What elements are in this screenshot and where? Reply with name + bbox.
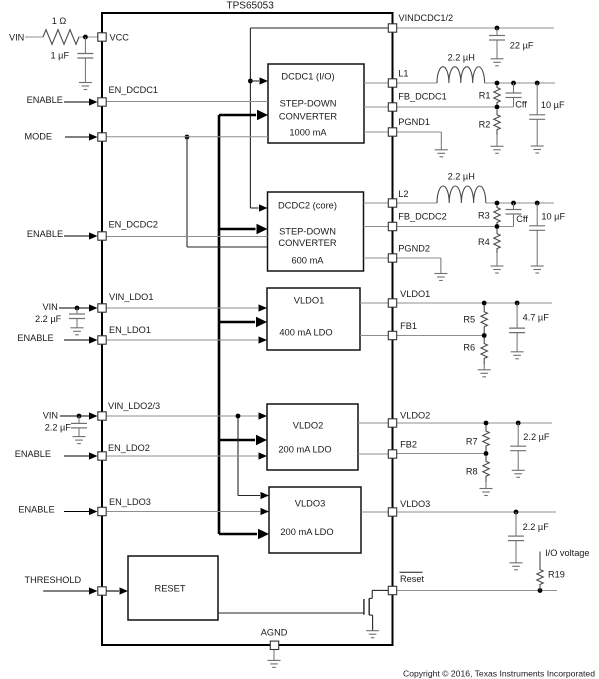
svg-text:VIN: VIN (43, 302, 58, 312)
svg-text:ENABLE: ENABLE (17, 333, 53, 343)
svg-text:1 µF: 1 µF (51, 51, 70, 61)
svg-text:R1: R1 (479, 91, 491, 101)
svg-text:Cff: Cff (516, 214, 528, 224)
svg-text:THRESHOLD: THRESHOLD (25, 575, 82, 585)
svg-text:ENABLE: ENABLE (27, 95, 63, 105)
svg-text:VLDO2: VLDO2 (293, 420, 324, 430)
svg-text:EN_DCDC2: EN_DCDC2 (109, 220, 159, 230)
svg-text:STEP-DOWN: STEP-DOWN (280, 98, 337, 108)
svg-text:10 µF: 10 µF (541, 100, 565, 110)
svg-text:R3: R3 (478, 211, 490, 221)
svg-text:2.2 µF: 2.2 µF (523, 522, 550, 532)
svg-text:Copyright © 2016, Texas Instru: Copyright © 2016, Texas Instruments Inco… (403, 669, 595, 679)
svg-text:EN_DCDC1: EN_DCDC1 (109, 85, 159, 95)
svg-text:FB_DCDC1: FB_DCDC1 (398, 92, 447, 102)
svg-text:CONVERTER: CONVERTER (278, 238, 336, 248)
svg-text:VCC: VCC (110, 32, 130, 42)
svg-text:DCDC2 (core): DCDC2 (core) (278, 200, 337, 210)
svg-text:600 mA: 600 mA (291, 255, 324, 265)
svg-text:2.2 µF: 2.2 µF (523, 432, 550, 442)
svg-text:R5: R5 (463, 315, 475, 325)
svg-text:R7: R7 (466, 437, 478, 447)
svg-text:Cff: Cff (515, 100, 527, 110)
svg-text:VLDO1: VLDO1 (400, 289, 430, 299)
svg-text:VLDO1: VLDO1 (294, 295, 325, 305)
svg-text:STEP-DOWN: STEP-DOWN (279, 226, 336, 236)
svg-text:EN_LDO2: EN_LDO2 (108, 443, 150, 453)
svg-text:CONVERTER: CONVERTER (279, 111, 337, 121)
svg-text:2.2 µF: 2.2 µF (45, 422, 72, 432)
svg-text:EN_LDO1: EN_LDO1 (109, 325, 151, 335)
svg-text:PGND1: PGND1 (398, 117, 430, 127)
svg-text:VLDO3: VLDO3 (295, 498, 326, 508)
svg-text:400 mA LDO: 400 mA LDO (279, 327, 332, 337)
svg-text:TPS65053: TPS65053 (227, 1, 275, 12)
svg-text:1000 mA: 1000 mA (289, 127, 327, 137)
svg-text:R2: R2 (479, 120, 491, 130)
svg-text:R6: R6 (463, 342, 475, 352)
svg-text:I/O voltage: I/O voltage (545, 548, 589, 558)
svg-text:1 Ω: 1 Ω (52, 16, 67, 26)
svg-text:ENABLE: ENABLE (18, 504, 54, 514)
svg-text:10 µF: 10 µF (541, 211, 565, 221)
svg-text:VLDO3: VLDO3 (400, 499, 430, 509)
svg-text:DCDC1 (I/O): DCDC1 (I/O) (281, 71, 334, 81)
svg-text:VINDCDC1/2: VINDCDC1/2 (399, 13, 454, 23)
svg-text:R4: R4 (478, 237, 490, 247)
svg-text:ENABLE: ENABLE (27, 229, 63, 239)
svg-text:RESET: RESET (155, 583, 186, 593)
svg-text:VLDO2: VLDO2 (400, 411, 430, 421)
svg-text:PGND2: PGND2 (398, 244, 430, 254)
svg-text:EN_LDO3: EN_LDO3 (109, 497, 151, 507)
svg-text:FB_DCDC2: FB_DCDC2 (398, 212, 447, 222)
svg-text:VIN_LDO1: VIN_LDO1 (109, 292, 153, 302)
svg-text:L1: L1 (398, 69, 408, 79)
svg-text:200 mA LDO: 200 mA LDO (278, 444, 331, 454)
svg-text:R8: R8 (466, 466, 478, 476)
svg-text:FB1: FB1 (400, 321, 417, 331)
svg-text:Reset: Reset (400, 574, 424, 584)
svg-text:VIN_LDO2/3: VIN_LDO2/3 (108, 401, 160, 411)
svg-text:MODE: MODE (25, 131, 53, 141)
svg-text:R19: R19 (548, 570, 565, 580)
svg-text:VIN: VIN (9, 32, 24, 42)
svg-text:2.2 µH: 2.2 µH (448, 172, 475, 182)
svg-text:22 µF: 22 µF (510, 40, 534, 50)
svg-text:2.2 µF: 2.2 µF (35, 314, 62, 324)
svg-text:AGND: AGND (261, 628, 288, 638)
svg-text:FB2: FB2 (400, 440, 417, 450)
svg-text:4.7 µF: 4.7 µF (523, 313, 550, 323)
svg-text:2.2 µH: 2.2 µH (448, 53, 475, 63)
svg-text:VIN: VIN (43, 411, 58, 421)
svg-text:ENABLE: ENABLE (15, 449, 51, 459)
svg-text:200 mA LDO: 200 mA LDO (280, 527, 333, 537)
svg-text:L2: L2 (398, 189, 408, 199)
